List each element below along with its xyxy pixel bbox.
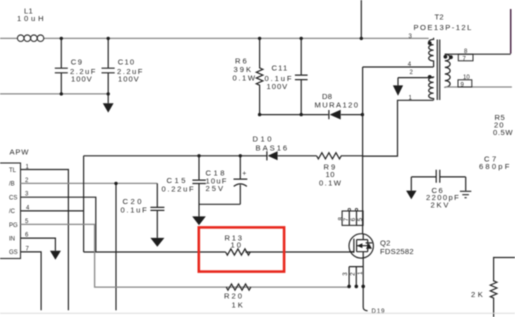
svg-text:C11: C11 — [272, 64, 289, 73]
connector APW — [0, 148, 30, 259]
wire T2 pin1 down and left — [362, 100, 433, 156]
node dots clamp rail — [258, 113, 364, 116]
svg-text:T2: T2 — [435, 13, 444, 22]
svg-text:2: 2 — [410, 70, 414, 76]
T2 polarity dots — [428, 41, 432, 45]
svg-text:/C: /C — [9, 209, 16, 215]
svg-text:0.1uF: 0.1uF — [121, 206, 149, 215]
inductor L1 — [17, 7, 46, 42]
wire gate-drive rail — [84, 155, 317, 157]
capacitor C6 with grounds — [406, 170, 471, 210]
wire pin1 down to bottom — [21, 170, 69, 311]
svg-text:100V: 100V — [71, 75, 93, 84]
pin box 7 — [458, 49, 473, 62]
svg-text:TL: TL — [9, 168, 17, 174]
svg-text:0.5W: 0.5W — [493, 128, 513, 137]
wire lower-left rail — [0, 93, 108, 95]
svg-text:100V: 100V — [267, 82, 289, 91]
diode D10 — [253, 135, 290, 161]
wire vertical to top edge — [360, 0, 362, 38]
svg-text:100V: 100V — [118, 75, 140, 84]
svg-text:10: 10 — [463, 75, 470, 81]
transistor Q2 — [349, 234, 414, 258]
wire top main rail — [0, 37, 429, 39]
svg-text:3: 3 — [409, 34, 413, 40]
capacitor C10 — [102, 38, 144, 103]
svg-text:680pF: 680pF — [479, 162, 512, 171]
svg-text:2: 2 — [351, 272, 357, 276]
svg-text:/B: /B — [9, 182, 15, 188]
wire pin2 grey — [21, 182, 158, 184]
svg-text:10: 10 — [231, 240, 243, 249]
svg-text:C15: C15 — [167, 176, 188, 185]
node junction dots top rail — [60, 37, 363, 96]
wire pin6 with ground arrow — [21, 238, 61, 260]
transformer T2 — [408, 13, 473, 102]
wire gate rail lower — [84, 251, 354, 253]
svg-text:0.22uF: 0.22uF — [162, 185, 196, 194]
resistor R9 — [317, 153, 363, 188]
wire pin3 — [21, 197, 96, 252]
svg-text:APW: APW — [10, 148, 30, 157]
wire T2 pin2 with down arrow — [393, 78, 434, 96]
svg-text:10uH: 10uH — [17, 14, 46, 23]
ground arrow under C15/C18 — [192, 216, 206, 225]
capacitor C20 — [121, 183, 165, 238]
svg-text:0.1W: 0.1W — [319, 179, 342, 188]
svg-text:PG: PG — [9, 223, 18, 229]
svg-text:7: 7 — [463, 56, 467, 62]
wire T2 pin4 to drain column — [363, 67, 434, 211]
ground arrow under C10 — [103, 103, 114, 112]
svg-text:2K: 2K — [471, 290, 485, 299]
wire clamp rail — [260, 114, 363, 116]
resistor R13 — [225, 234, 251, 256]
svg-text:0.1W: 0.1W — [233, 74, 257, 83]
svg-text:POE13P-12L: POE13P-12L — [414, 23, 473, 32]
svg-text:+: + — [242, 171, 246, 178]
wire pin4 — [21, 210, 84, 212]
faint page boundary line — [0, 312, 515, 314]
resistor R20 — [224, 284, 251, 309]
wire secondary lower — [445, 86, 512, 88]
wire secondary upper — [445, 53, 511, 55]
svg-text:IN: IN — [9, 236, 15, 242]
svg-text:FDS2582: FDS2582 — [380, 247, 414, 256]
svg-text:C20: C20 — [123, 197, 144, 206]
wire pin5 grey — [21, 224, 350, 287]
node dots gate rail — [197, 154, 242, 157]
capacitor C7 labels — [479, 155, 512, 172]
resistor 2K — [471, 258, 515, 317]
wire purple net stub — [510, 9, 512, 54]
svg-text:D19: D19 — [372, 309, 386, 315]
T2 primary winding upper — [429, 38, 434, 67]
svg-text:MURA120: MURA120 — [315, 101, 360, 110]
capacitor C11 — [265, 38, 308, 114]
capacitor C15 — [162, 156, 241, 217]
svg-text:R20: R20 — [224, 292, 244, 301]
diode D8 — [315, 92, 360, 120]
svg-text:Q2: Q2 — [380, 239, 391, 248]
svg-text:1K: 1K — [232, 300, 245, 309]
capacitor C18 electrolytic — [206, 156, 248, 205]
wire pin7 to bottom — [21, 252, 42, 310]
svg-text:GS: GS — [9, 250, 18, 256]
svg-text:2KV: 2KV — [431, 201, 451, 210]
wire drain column — [362, 211, 364, 234]
T2 core — [437, 40, 439, 101]
ground arrow under C20 — [150, 238, 164, 247]
svg-text:C9: C9 — [71, 58, 84, 67]
svg-text:D10: D10 — [253, 135, 274, 144]
Q2 drain pin box — [338, 208, 364, 225]
capacitor C9 — [55, 38, 97, 94]
pin box 9 — [458, 75, 472, 88]
wire source exit curve and label D19 — [363, 307, 385, 315]
wire pin2 branch to bottom — [114, 182, 117, 311]
T2 primary winding lower — [429, 77, 434, 100]
svg-text:25V: 25V — [206, 184, 226, 193]
T2 secondary winding — [445, 54, 450, 87]
Q2 source pin cluster — [343, 258, 365, 307]
svg-text:C10: C10 — [118, 58, 136, 67]
resistor R6 — [233, 38, 263, 114]
resistor R5 labels — [493, 113, 513, 137]
svg-text:BAS16: BAS16 — [256, 144, 290, 153]
highlight box around R13 — [199, 227, 284, 271]
svg-text:3: 3 — [343, 272, 349, 276]
svg-text:CS: CS — [9, 195, 17, 201]
wire gate column — [83, 156, 85, 252]
